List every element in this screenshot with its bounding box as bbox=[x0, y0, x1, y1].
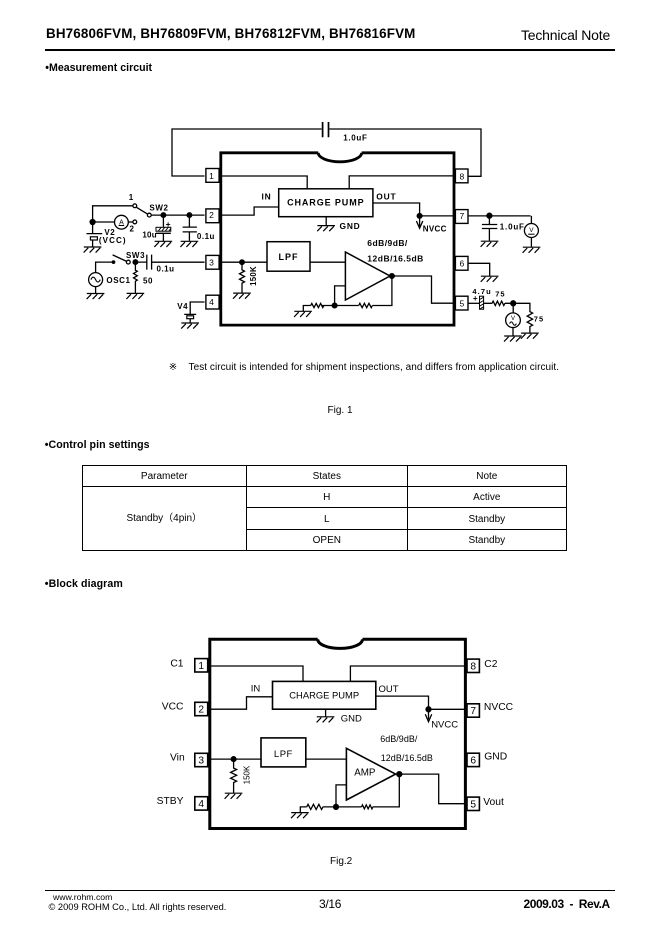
svg-text:LPF: LPF bbox=[274, 749, 293, 760]
svg-text:6dB/9dB/: 6dB/9dB/ bbox=[380, 734, 418, 744]
svg-text:+: + bbox=[473, 294, 478, 303]
svg-text:CHARGE PUMP: CHARGE PUMP bbox=[287, 198, 364, 208]
svg-text:6: 6 bbox=[460, 258, 465, 268]
svg-text:75: 75 bbox=[534, 314, 544, 323]
svg-text:8: 8 bbox=[470, 661, 476, 672]
svg-text:C1: C1 bbox=[170, 659, 183, 670]
svg-text:OSC1: OSC1 bbox=[106, 276, 130, 285]
svg-text:8: 8 bbox=[460, 171, 465, 181]
svg-text:1.0uF: 1.0uF bbox=[500, 223, 525, 232]
svg-text:CHARGE PUMP: CHARGE PUMP bbox=[289, 690, 359, 701]
svg-text:SW3: SW3 bbox=[126, 251, 145, 260]
svg-text:4: 4 bbox=[198, 799, 204, 810]
svg-text:Vout: Vout bbox=[483, 797, 504, 808]
svg-text:0.1u: 0.1u bbox=[197, 232, 215, 241]
svg-text:5: 5 bbox=[460, 298, 465, 308]
svg-text:IN: IN bbox=[251, 684, 261, 695]
svg-text:Vin: Vin bbox=[170, 752, 185, 763]
svg-text:6dB/9dB/: 6dB/9dB/ bbox=[367, 238, 408, 248]
svg-text:OUT: OUT bbox=[376, 192, 396, 202]
svg-text:AMP: AMP bbox=[354, 768, 376, 779]
svg-text:1: 1 bbox=[198, 661, 204, 672]
svg-text:3: 3 bbox=[198, 756, 204, 767]
svg-text:2: 2 bbox=[198, 705, 204, 716]
svg-text:C2: C2 bbox=[484, 659, 497, 670]
svg-text:NVCC: NVCC bbox=[484, 702, 514, 713]
svg-text:IN: IN bbox=[262, 192, 272, 202]
svg-text:LPF: LPF bbox=[279, 252, 299, 262]
svg-text:V4: V4 bbox=[177, 302, 188, 311]
svg-text:3: 3 bbox=[209, 257, 214, 267]
svg-text:1: 1 bbox=[129, 193, 134, 202]
svg-text:GND: GND bbox=[341, 714, 362, 725]
svg-text:GND: GND bbox=[340, 221, 361, 231]
svg-text:5: 5 bbox=[470, 799, 476, 810]
svg-text:(VCC): (VCC) bbox=[99, 236, 127, 245]
svg-text:150K: 150K bbox=[243, 765, 252, 784]
svg-text:4: 4 bbox=[209, 297, 214, 307]
svg-text:+: + bbox=[166, 219, 171, 229]
svg-text:10u: 10u bbox=[142, 231, 156, 240]
svg-text:1: 1 bbox=[209, 171, 214, 181]
svg-text:GND: GND bbox=[484, 752, 507, 763]
svg-text:VCC: VCC bbox=[162, 702, 184, 713]
svg-text:NVCC: NVCC bbox=[431, 720, 458, 731]
svg-text:12dB/16.5dB: 12dB/16.5dB bbox=[381, 753, 433, 763]
svg-text:7: 7 bbox=[460, 211, 465, 221]
svg-text:1.0uF: 1.0uF bbox=[343, 133, 367, 142]
svg-text:V: V bbox=[529, 227, 534, 234]
svg-text:A: A bbox=[119, 220, 124, 227]
svg-text:75: 75 bbox=[495, 289, 505, 298]
svg-text:STBY: STBY bbox=[157, 796, 184, 807]
svg-text:12dB/16.5dB: 12dB/16.5dB bbox=[367, 253, 424, 263]
svg-text:6: 6 bbox=[470, 756, 476, 767]
svg-text:150K: 150K bbox=[249, 266, 258, 286]
svg-text:2: 2 bbox=[130, 225, 135, 234]
svg-text:SW2: SW2 bbox=[149, 204, 168, 213]
svg-text:V: V bbox=[511, 316, 515, 322]
svg-text:50: 50 bbox=[143, 276, 153, 285]
svg-text:0.1u: 0.1u bbox=[157, 265, 175, 274]
svg-text:7: 7 bbox=[470, 706, 476, 717]
svg-text:OUT: OUT bbox=[379, 684, 399, 695]
svg-text:2: 2 bbox=[209, 210, 214, 220]
svg-text:NVCC: NVCC bbox=[423, 225, 447, 234]
